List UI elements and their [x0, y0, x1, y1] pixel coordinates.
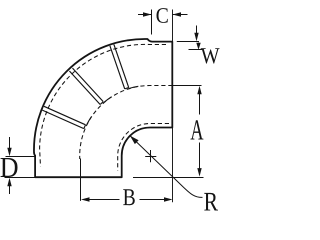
part outline: curved 90-degree chute rail and floor — [34, 39, 172, 177]
dimension A bottom arrow — [199, 143, 201, 169]
dimension D lower arrow — [7, 178, 11, 187]
dimension D upper arrow — [9, 137, 11, 148]
dimension B line left arrow — [81, 197, 90, 201]
dimension D upper reference line — [6, 156, 35, 158]
dimension D lower reference line — [5, 177, 36, 179]
vane 2 — [69, 71, 100, 105]
hidden line: inner surface of outer rail — [40, 44, 166, 166]
label B — [123, 189, 135, 205]
hidden line: floor plate inner fillet — [118, 124, 169, 171]
dimension W bottom arrow — [198, 43, 200, 45]
vane 1 — [110, 46, 125, 89]
dimension W top reference line — [177, 41, 199, 43]
label A — [190, 120, 203, 139]
label W — [201, 48, 220, 63]
dimension B left extension line (solid continuation of vane-tip envelope) — [80, 159, 82, 201]
vane 3 — [42, 110, 84, 129]
label D — [0, 158, 17, 177]
dimension W top arrow — [196, 26, 198, 34]
shared extension line at top end face (C right / B right) — [172, 10, 174, 203]
dimension C line, outside arrows — [138, 14, 152, 16]
center mark + of fillet radius R — [150, 150, 152, 162]
radius R leader line with arrowhead — [130, 136, 202, 198]
dimension A bottom reference line — [133, 177, 204, 179]
dimension A top arrow — [197, 86, 201, 95]
dimension B line right arrow — [140, 199, 165, 201]
dimension C left extension line — [151, 10, 153, 35]
dimension W bottom reference line — [189, 49, 203, 51]
label R — [204, 193, 218, 211]
dimension A top connector line — [173, 85, 202, 87]
label C — [157, 8, 168, 23]
hidden line: vane tip envelope arc — [80, 86, 173, 160]
